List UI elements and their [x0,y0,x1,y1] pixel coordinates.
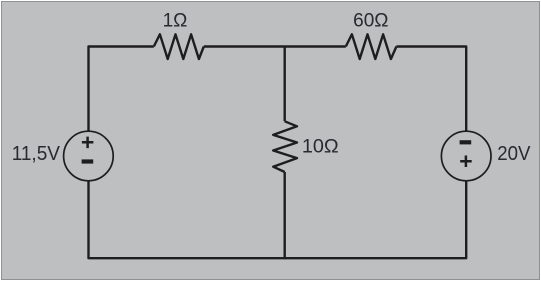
V1 minus sign (bottom) [82,159,94,163]
resistor R1 1Ω (zigzag) [154,34,204,59]
V2 plus sign (bottom) [460,156,472,168]
svg-text:20V: 20V [497,142,530,165]
V2 minus sign (top) [460,140,472,144]
wire: R2 across and down to V2 top terminal (top-right corner) [396,47,466,132]
wire: R3 down to bottom node B [284,172,286,259]
wire: R1 to R2 through node A (top middle junction) [204,45,346,47]
voltage source V2 (20V) circle [441,131,491,181]
resistor R2 60Ω (zigzag) [346,34,397,59]
svg-text:11,5V: 11,5V [12,142,61,165]
resistor R3 10Ω (vertical zigzag) [273,121,297,172]
svg-text:60Ω: 60Ω [353,11,388,32]
voltage source V1 (11,5V) circle [64,131,114,181]
V1 plus sign (top) [82,137,94,149]
wire: node A down to R3 [284,46,286,122]
svg-text:1Ω: 1Ω [163,11,188,32]
svg-text:10Ω: 10Ω [302,135,339,157]
wire: bottom return path V1 bottom to V2 bottom [89,181,467,259]
wire: V1 top terminal up and across to R1 (top-left corner) [89,47,154,132]
